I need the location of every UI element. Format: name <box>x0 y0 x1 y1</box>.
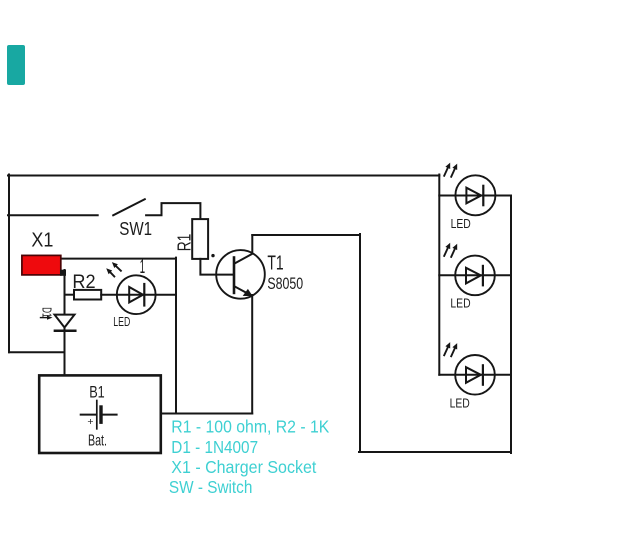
resistor R2 <box>74 290 101 300</box>
svg-text:LED: LED <box>451 216 471 231</box>
LED1 diode triangle <box>129 287 143 302</box>
LED3 diode bar <box>482 266 484 285</box>
wire collector to right <box>252 234 360 236</box>
svg-text:X1 - Charger Socket: X1 - Charger Socket <box>171 457 316 477</box>
svg-text:R1: R1 <box>175 234 195 252</box>
wire inner box bottom <box>161 413 252 415</box>
transistor Q1 T1 circle <box>216 250 265 299</box>
D1 pointer arrow <box>41 317 50 319</box>
svg-text:+: + <box>87 416 93 428</box>
LED4 diode triangle <box>466 367 481 383</box>
LED1 circle <box>117 275 156 314</box>
charger socket X1 red body <box>22 255 61 275</box>
diode D1 triangle <box>55 315 75 328</box>
LED3 row wire <box>439 274 511 276</box>
resistor R1 <box>192 219 208 259</box>
svg-text:Bat.: Bat. <box>88 433 107 450</box>
LED2 row wire <box>439 195 511 197</box>
wire frame bottom-left <box>9 351 65 353</box>
LED3 arrows <box>444 248 448 256</box>
X1 bottom stub <box>60 270 66 276</box>
svg-text:SW1: SW1 <box>119 219 152 239</box>
wire D1 vertical <box>64 270 66 375</box>
battery lead right <box>103 414 117 416</box>
LED4 arrows <box>444 347 448 355</box>
wire top rail <box>8 175 439 177</box>
svg-text:SW - Switch: SW - Switch <box>169 477 253 497</box>
battery short plate <box>99 407 102 422</box>
svg-text:S8050: S8050 <box>267 275 303 293</box>
LED4 circle <box>455 355 495 395</box>
wire emitter down <box>251 295 253 414</box>
teal badge <box>7 45 25 85</box>
transistor T1 emitter arrowhead <box>243 289 253 296</box>
svg-text:X1: X1 <box>31 229 53 251</box>
svg-text:T1: T1 <box>267 252 283 274</box>
wire switch row <box>8 214 98 216</box>
svg-text:LED: LED <box>113 315 130 329</box>
wire R2 to LED1 to box edge <box>101 294 176 296</box>
LED2 circle <box>455 175 495 215</box>
wire right mid vertical <box>359 234 361 452</box>
diode D1 cathode bar <box>55 330 75 333</box>
wire bottom rail <box>359 451 511 453</box>
wire R2 row left <box>65 294 75 296</box>
wire switch right contact <box>146 203 200 219</box>
svg-text:B1: B1 <box>89 382 105 401</box>
svg-text:D1: D1 <box>39 307 54 317</box>
battery lead left <box>81 414 96 416</box>
node junction dot <box>211 254 214 257</box>
LED3 diode triangle <box>466 268 481 284</box>
LED4 diode bar <box>482 365 484 384</box>
LED2 diode bar <box>482 186 484 205</box>
LED string left rail <box>438 175 440 375</box>
transistor T1 base bar <box>233 258 236 293</box>
wire R1 bottom to base <box>200 259 233 275</box>
svg-text:LED: LED <box>450 296 470 311</box>
LED2 diode triangle <box>466 188 481 204</box>
svg-text:R1 - 100 ohm, R2 - 1K: R1 - 100 ohm, R2 - 1K <box>171 416 329 436</box>
battery long plate <box>96 401 98 429</box>
svg-text:D1 - 1N4007: D1 - 1N4007 <box>171 437 258 457</box>
LED1 diode bar <box>143 284 145 306</box>
LED2 arrows <box>444 168 448 176</box>
transistor T1 collector line <box>235 235 253 264</box>
switch SW1 blade <box>113 199 145 215</box>
svg-text:R2: R2 <box>72 272 95 293</box>
wire X1 to box top <box>61 258 176 260</box>
wire inner box right edge <box>175 258 177 414</box>
LED3 circle <box>455 256 495 296</box>
svg-text:1: 1 <box>140 256 146 278</box>
LED1 arrow a <box>116 266 121 271</box>
wire left frame <box>8 175 10 353</box>
battery B1 box <box>39 375 161 453</box>
LED4 row wire <box>439 374 511 376</box>
transistor T1 emitter line <box>235 286 249 293</box>
svg-text:LED: LED <box>450 396 470 411</box>
LED1 arrow b <box>110 272 114 276</box>
wire right rail <box>510 196 512 454</box>
